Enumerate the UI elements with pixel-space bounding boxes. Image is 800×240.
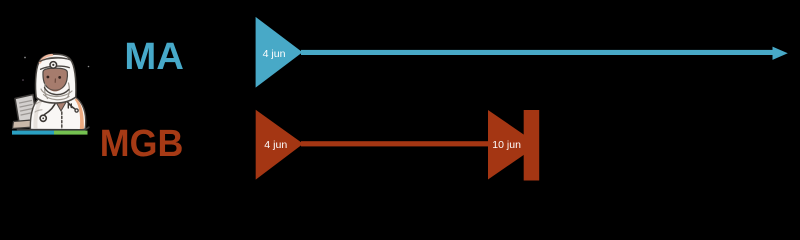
placket dashed — [61, 112, 63, 130]
coat body — [30, 96, 85, 131]
sketch dots — [24, 57, 26, 59]
eyes — [47, 76, 50, 79]
stethoscope right tube — [67, 101, 76, 110]
face — [43, 68, 68, 90]
MGB timeline line — [301, 141, 490, 146]
doctor icon — [12, 54, 89, 134]
MGB end marker triangle — [488, 110, 539, 180]
coat orange stripe — [75, 99, 84, 130]
face lower shade — [47, 87, 64, 92]
laptop panel — [15, 95, 37, 123]
MGB end marker bar — [524, 110, 540, 181]
cowl chin line — [45, 88, 69, 95]
head wrap — [36, 54, 76, 103]
ground teal band — [12, 131, 54, 135]
svg-text:10 jun: 10 jun — [492, 139, 521, 151]
svg-text:MA: MA — [124, 36, 183, 78]
wrap peach edge — [40, 55, 52, 63]
wrap top fold line — [45, 57, 66, 59]
svg-text:4 jun: 4 jun — [264, 139, 287, 151]
stethoscope left tube — [45, 101, 57, 115]
svg-text:4 jun: 4 jun — [263, 48, 286, 60]
svg-text:MGB: MGB — [100, 123, 184, 165]
cowl folds — [41, 83, 72, 100]
head mirror — [50, 62, 57, 69]
laptop screen lines — [20, 101, 34, 116]
headband upper line — [40, 58, 70, 61]
sleeve fold lines — [35, 101, 43, 112]
headband lower line — [41, 66, 70, 69]
laptop base — [13, 120, 34, 129]
MA timeline start milestone triangle — [256, 17, 303, 88]
ground stroke — [18, 127, 89, 130]
MA timeline arrowhead — [773, 47, 788, 60]
ground green band — [54, 131, 88, 135]
MA timeline arrow line — [301, 50, 775, 55]
coat buttons — [68, 104, 71, 108]
chest skin v — [55, 101, 67, 112]
coat left sleeve shading — [33, 99, 44, 129]
stethoscope chest piece — [40, 115, 46, 121]
nose — [54, 79, 56, 82]
MGB timeline start milestone triangle — [256, 110, 304, 180]
